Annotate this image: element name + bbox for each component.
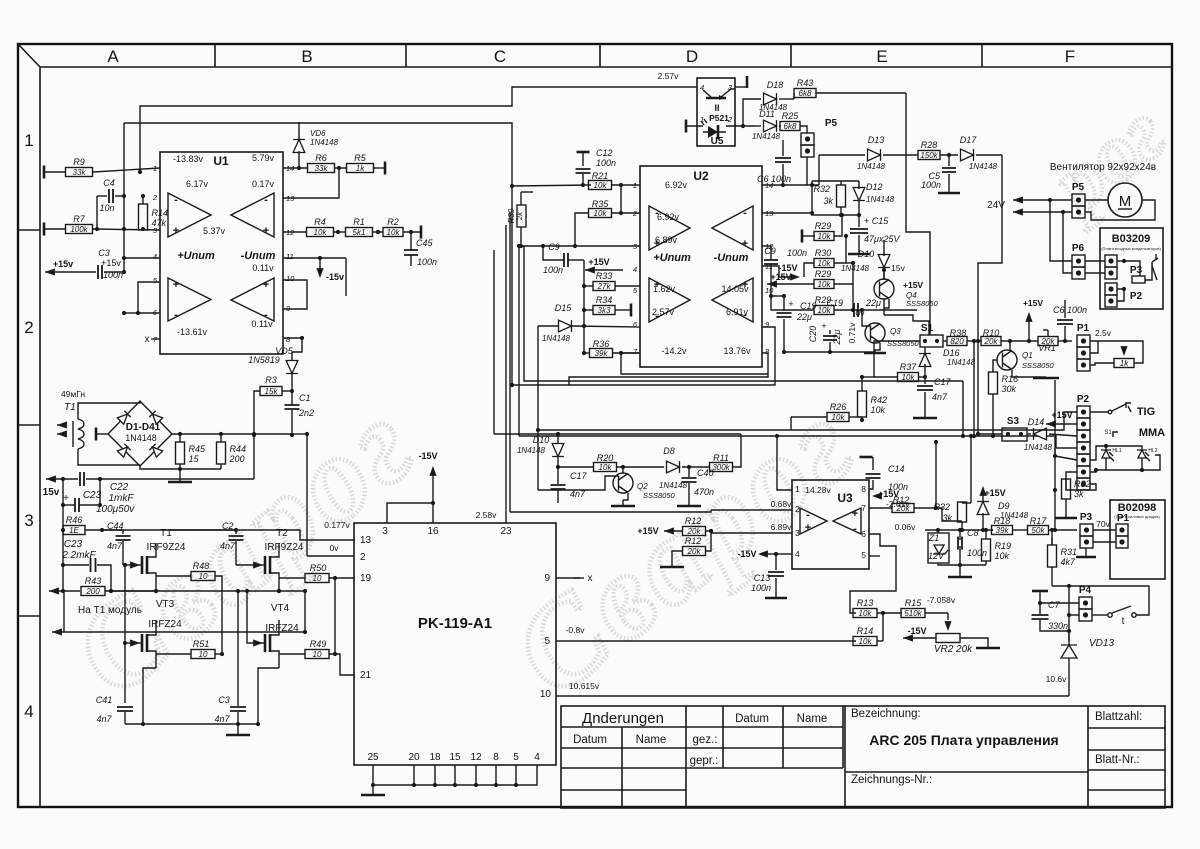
wire R6R5 to pin13: [283, 168, 339, 198]
op-amp U1.1: [168, 193, 211, 237]
wire D15 to U2 pin6: [571, 326, 640, 327]
svg-text:C14: C14: [888, 464, 905, 474]
svg-text:R14: R14: [857, 626, 874, 636]
svg-text:6.89v: 6.89v: [655, 235, 678, 245]
svg-text:1E: 1E: [69, 526, 79, 535]
capacitor C12: [577, 151, 590, 154]
svg-text:2k: 2k: [515, 211, 524, 221]
svg-text:4: 4: [153, 252, 157, 261]
bridge diode symbols: [117, 411, 130, 424]
svg-text:VD13: VD13: [1089, 638, 1114, 649]
svg-text:HL1: HL1: [1112, 448, 1121, 454]
svg-text:1N4148: 1N4148: [947, 358, 976, 367]
svg-text:10: 10: [540, 689, 552, 700]
PK pin2 wire: [307, 555, 354, 557]
svg-text:+: +: [742, 238, 748, 250]
svg-text:5: 5: [861, 550, 866, 560]
svg-text:-13.83v: -13.83v: [173, 154, 204, 164]
wire U2 pin8 loop: [569, 353, 768, 385]
ground under bridge: [179, 469, 181, 481]
svg-text:P6: P6: [1072, 243, 1085, 254]
svg-text:4n7: 4n7: [214, 714, 230, 724]
svg-text:0v: 0v: [330, 543, 340, 553]
svg-text:D1-D41: D1-D41: [126, 422, 161, 433]
resistor R1: [336, 230, 340, 234]
svg-text:+15v: +15v: [53, 259, 73, 269]
svg-text:4: 4: [795, 549, 800, 559]
resistor R42: [858, 391, 867, 417]
unit B02098: [1110, 500, 1165, 579]
svg-text:R32: R32: [933, 502, 950, 512]
svg-text:P5: P5: [1072, 182, 1085, 193]
svg-text:1N4148: 1N4148: [969, 162, 998, 171]
ground Z1 C8 R19: [938, 563, 986, 565]
svg-text:2.5v: 2.5v: [1095, 328, 1112, 338]
svg-text:-15V: -15V: [737, 549, 756, 559]
wire P5 down: [806, 157, 808, 185]
svg-text:-7.058v: -7.058v: [927, 595, 956, 605]
svg-text:2: 2: [795, 504, 800, 514]
wire U2 pin9 loop: [512, 327, 775, 385]
svg-text:4n7: 4n7: [96, 714, 112, 724]
grid column dividers: [215, 44, 982, 67]
svg-text:11: 11: [286, 252, 294, 261]
svg-text:R16: R16: [1002, 374, 1019, 384]
svg-text:-: -: [264, 194, 268, 206]
B03209 switch: [1152, 258, 1158, 280]
svg-text:+15V: +15V: [637, 526, 658, 536]
svg-text:10k: 10k: [859, 609, 873, 618]
svg-text:50k: 50k: [1032, 526, 1046, 535]
svg-text:1N4148: 1N4148: [542, 334, 571, 343]
svg-text:D18: D18: [767, 80, 784, 90]
svg-text:8: 8: [861, 484, 866, 494]
svg-text:C13: C13: [754, 573, 771, 583]
svg-text:+15V: +15V: [1023, 298, 1043, 308]
svg-text:C23: C23: [83, 490, 102, 501]
svg-text:C45: C45: [416, 238, 434, 248]
svg-text:R21: R21: [592, 171, 609, 181]
svg-text:100k: 100k: [70, 225, 88, 234]
svg-text:Datum: Datum: [735, 713, 769, 725]
svg-text:15: 15: [449, 752, 461, 763]
wire R45 R44 bottoms: [140, 465, 221, 469]
resistor R44: [217, 442, 226, 464]
svg-text:VD6: VD6: [310, 129, 326, 138]
svg-text:R43: R43: [85, 576, 102, 586]
svg-text:820: 820: [950, 337, 964, 346]
resistor R45: [176, 442, 185, 464]
wire vertical x510: [509, 212, 511, 512]
svg-text:4n7: 4n7: [220, 541, 236, 551]
wire P1 pin2: [1090, 341, 1098, 353]
svg-text:4: 4: [24, 702, 33, 721]
svg-text:39k: 39k: [595, 349, 609, 358]
svg-text:VT4: VT4: [271, 603, 290, 614]
svg-text:7: 7: [861, 503, 866, 513]
op-amp U1.2: [231, 193, 274, 237]
svg-text:33k: 33k: [315, 164, 329, 173]
svg-text:0.11v: 0.11v: [251, 319, 273, 329]
svg-text:10k: 10k: [995, 551, 1010, 561]
wire gate row: [102, 530, 123, 534]
svg-text:D14: D14: [1028, 417, 1045, 427]
wire C4 column: [96, 196, 98, 229]
svg-text:R3: R3: [265, 375, 277, 385]
resistor R31: [1048, 545, 1057, 567]
svg-text:20k: 20k: [984, 337, 999, 346]
wire vertical x307 to pin2: [306, 434, 308, 556]
svg-text:-13.61v: -13.61v: [177, 327, 208, 337]
power +15V arrow U2 left: [585, 266, 595, 273]
svg-text:R28: R28: [921, 140, 938, 150]
svg-text:U3: U3: [837, 491, 853, 505]
wire R31 to P4 jog: [1052, 586, 1069, 631]
ground under Q3: [875, 343, 880, 352]
wire to U1 pin4: [124, 257, 160, 259]
svg-text:Datum: Datum: [573, 734, 607, 746]
T2 wires: [278, 543, 280, 551]
PK pin9 wire x: [556, 577, 580, 579]
LED HL1: [1101, 450, 1111, 458]
svg-text:+15V: +15V: [770, 272, 791, 282]
svg-text:300k: 300k: [712, 463, 730, 472]
wire pin10 pin9 loop: [283, 280, 307, 309]
svg-text:R42: R42: [871, 395, 888, 405]
svg-text:3k3: 3k3: [598, 306, 611, 315]
svg-text:0.177v: 0.177v: [324, 520, 350, 530]
svg-text:20k: 20k: [896, 504, 911, 513]
svg-text:VR2 20k: VR2 20k: [934, 644, 973, 655]
svg-text:Q3: Q3: [890, 327, 901, 336]
svg-text:10k: 10k: [818, 259, 832, 268]
wire P4 pin2 row: [1069, 614, 1079, 616]
U5 phototransistor: [703, 89, 735, 97]
svg-text:C3: C3: [98, 248, 110, 258]
svg-text:10k: 10k: [818, 232, 832, 241]
svg-text:25: 25: [367, 752, 379, 763]
svg-text:100μ50v: 100μ50v: [96, 504, 135, 515]
svg-text:6.89v: 6.89v: [771, 522, 793, 532]
svg-text:x: x: [145, 334, 150, 345]
svg-text:-: -: [743, 207, 747, 219]
svg-text:20: 20: [408, 752, 420, 763]
svg-text:22μ: 22μ: [865, 298, 881, 308]
svg-text:15v: 15v: [891, 263, 905, 273]
svg-text:A: A: [107, 47, 119, 66]
svg-text:Q2: Q2: [637, 482, 648, 491]
wire vertical x519: [518, 246, 520, 436]
svg-text:5: 5: [544, 636, 550, 647]
svg-text:24V: 24V: [987, 200, 1005, 211]
wire Q3 base: [862, 310, 870, 326]
svg-text:6: 6: [861, 529, 866, 539]
motor wires: [1085, 199, 1108, 201]
T1 drain-source wires: [155, 543, 157, 551]
wire parallel vertical: [973, 341, 975, 436]
svg-text:C7: C7: [1048, 600, 1060, 610]
B03209 internal wires: [1117, 260, 1124, 262]
capacitor C14: [860, 456, 873, 459]
wire R36 output down: [619, 351, 623, 355]
U5 pin3 terminal: [735, 86, 747, 88]
wire D17 down: [978, 155, 1002, 341]
svg-text:10k: 10k: [599, 463, 613, 472]
svg-text:6k8: 6k8: [799, 89, 812, 98]
arrow to T1 module: [52, 628, 62, 635]
svg-text:10: 10: [313, 650, 322, 659]
svg-text:Blatt-Nr.:: Blatt-Nr.:: [1095, 754, 1140, 766]
svg-text:22μ: 22μ: [796, 312, 812, 322]
svg-text:+15v: +15v: [101, 258, 121, 268]
svg-text:4: 4: [534, 752, 540, 763]
resistor R5: [337, 166, 341, 170]
capacitor C22: [46, 475, 56, 482]
svg-text:9: 9: [544, 573, 550, 584]
svg-text:0.06v: 0.06v: [895, 522, 917, 532]
svg-text:6.17v: 6.17v: [186, 179, 209, 189]
svg-text:10.6v: 10.6v: [1046, 674, 1068, 684]
wires to P6: [1050, 200, 1072, 261]
wire R46 row to PK pin13: [102, 530, 355, 540]
transistor Q2: [613, 473, 633, 493]
svg-text:P3: P3: [1080, 512, 1093, 523]
svg-text:C6 100n: C6 100n: [757, 174, 791, 184]
power +15v arrow: [45, 268, 55, 275]
wire pin8 to VD5: [283, 337, 302, 339]
svg-text:C44: C44: [107, 521, 124, 531]
svg-text:R30: R30: [815, 248, 832, 258]
resistor R9: [43, 166, 46, 179]
ground under Q2: [622, 500, 624, 505]
svg-text:10.615v: 10.615v: [569, 681, 600, 691]
wire vertical x971: [970, 436, 972, 503]
svg-text:15v: 15v: [43, 487, 60, 498]
resistor R2: [376, 230, 380, 234]
svg-text:R7: R7: [73, 214, 85, 224]
svg-text:-15V: -15V: [907, 626, 926, 636]
svg-text:(Плата входных конденсаторов): (Плата входных конденсаторов): [1101, 246, 1161, 251]
svg-text:C9: C9: [548, 242, 560, 252]
svg-text:10k: 10k: [594, 181, 608, 190]
LED HL2: [1137, 450, 1147, 458]
svg-text:VR1: VR1: [1038, 343, 1056, 353]
wire Q3 emitter row: [783, 330, 785, 335]
svg-text:B03209: B03209: [1112, 233, 1151, 245]
svg-text:10k: 10k: [871, 405, 886, 415]
svg-text:13: 13: [360, 535, 372, 546]
op-amp U2.3: [649, 278, 690, 322]
svg-text:33k: 33k: [73, 168, 87, 177]
svg-text:M: M: [1119, 193, 1132, 210]
unit B03209: [1100, 228, 1163, 309]
svg-text:47μx25V: 47μx25V: [864, 234, 900, 244]
svg-text:R19: R19: [995, 541, 1012, 551]
TIG switch: [1090, 411, 1108, 413]
svg-text:+15V: +15V: [588, 257, 609, 267]
svg-text:U1: U1: [213, 154, 229, 168]
terminal at bridge left: [95, 428, 98, 441]
svg-text:1N4148: 1N4148: [125, 433, 157, 443]
wire vertical x963: [962, 381, 964, 436]
svg-text:C17: C17: [570, 471, 588, 481]
svg-text:1N4148: 1N4148: [517, 446, 546, 455]
svg-text:5.79v: 5.79v: [252, 153, 275, 163]
resistor R6: [283, 167, 307, 169]
svg-text:gepr.:: gepr.:: [690, 755, 719, 767]
wire railE S3 row: [977, 341, 979, 434]
svg-text:1N4148: 1N4148: [310, 138, 339, 147]
PK pin3 pin16 -15V arrow: [387, 503, 433, 523]
svg-text:MMA: MMA: [1139, 427, 1165, 439]
svg-text:2: 2: [360, 552, 366, 563]
svg-text:S1: S1: [1104, 430, 1112, 436]
svg-text:C41: C41: [96, 695, 113, 705]
svg-text:510k: 510k: [904, 609, 922, 618]
svg-text:6.92v: 6.92v: [657, 212, 680, 222]
svg-text:U5: U5: [711, 136, 724, 147]
resistor R4: [283, 231, 307, 233]
svg-text:1N4148: 1N4148: [752, 132, 781, 141]
ground under C3: [237, 724, 239, 734]
svg-text:B: B: [301, 47, 312, 66]
svg-text:R35: R35: [592, 199, 610, 209]
svg-text:R48: R48: [193, 561, 210, 571]
wire U3 out pin6: [869, 555, 880, 557]
ground P3: [1085, 548, 1087, 556]
svg-text:-14.2v: -14.2v: [661, 346, 687, 356]
svg-text:P2: P2: [1077, 394, 1090, 405]
wire Q1 emitter: [1012, 370, 1040, 377]
svg-text:SSS8050: SSS8050: [906, 299, 939, 308]
svg-text:TIG: TIG: [1137, 406, 1155, 418]
svg-text:3k: 3k: [942, 513, 952, 523]
svg-text:C20: C20: [808, 326, 818, 343]
svg-text:+Unum: +Unum: [653, 252, 691, 264]
svg-text:R29: R29: [815, 221, 832, 231]
wire vertical x494 top: [493, 250, 495, 345]
resistor R32-3k right: [1062, 479, 1071, 499]
op-amp U2.2: [712, 206, 753, 250]
svg-text:12V: 12V: [928, 551, 945, 561]
svg-text:D15: D15: [555, 303, 573, 313]
VR2 right to ground: [960, 638, 988, 647]
svg-text:IRF9Z24: IRF9Z24: [147, 542, 186, 553]
svg-text:D9: D9: [998, 501, 1010, 511]
svg-text:100n: 100n: [787, 248, 807, 258]
svg-text:100n: 100n: [921, 180, 941, 190]
svg-text:0.68v: 0.68v: [771, 499, 793, 509]
svg-text:C23: C23: [64, 539, 83, 550]
U1 pin11 wire with -15v arrow: [283, 257, 346, 259]
resistor R32-3k left-mid: [958, 502, 967, 522]
svg-text:10: 10: [286, 274, 295, 283]
svg-text:+Unum: +Unum: [177, 250, 215, 262]
svg-text:10: 10: [313, 574, 322, 583]
svg-text:R32: R32: [813, 184, 830, 194]
svg-text:150k: 150k: [920, 151, 938, 160]
svg-text:VT3: VT3: [156, 599, 175, 610]
svg-text:14.28v: 14.28v: [805, 485, 831, 495]
wire R12a to R32-3k node: [936, 508, 962, 521]
svg-text:D10: D10: [858, 249, 875, 259]
svg-text:27k: 27k: [597, 282, 612, 291]
svg-text:C: C: [494, 47, 506, 66]
wire rail top: [140, 87, 697, 172]
capacitor C45: [409, 230, 413, 234]
svg-text:22μ: 22μ: [832, 329, 842, 345]
svg-text:8: 8: [493, 752, 499, 763]
svg-text:Blattzahl:: Blattzahl:: [1095, 711, 1142, 723]
svg-text:На Т1 модуль: На Т1 модуль: [78, 605, 142, 616]
svg-text:T2: T2: [276, 528, 288, 539]
svg-text:S3: S3: [1007, 416, 1020, 427]
power +15V arrow at P2: [1046, 420, 1056, 427]
svg-text:0.17v: 0.17v: [252, 179, 275, 189]
svg-text:3: 3: [24, 511, 33, 530]
wire U5 pin2: [726, 125, 755, 127]
svg-text:12: 12: [470, 752, 482, 763]
watermark: [49, 86, 1182, 721]
svg-text:6.91v: 6.91v: [726, 307, 749, 317]
svg-text:C6 100n: C6 100n: [1053, 305, 1087, 315]
wire vertical x494: [493, 345, 495, 434]
PK pin10 wire: [556, 695, 1069, 697]
svg-text:4n7: 4n7: [932, 392, 948, 402]
svg-text:U2: U2: [693, 169, 709, 183]
wire R29c left: [771, 296, 814, 310]
svg-text:C19: C19: [826, 298, 843, 308]
wire R43 to S1 route: [906, 93, 930, 335]
transistor Q1: [997, 350, 1017, 370]
svg-text:D11: D11: [759, 109, 775, 119]
svg-text:1mkF: 1mkF: [109, 493, 135, 504]
U3 pin4 wire with -15V: [776, 553, 792, 555]
svg-text:14.05v: 14.05v: [721, 284, 749, 294]
svg-text:R12: R12: [685, 536, 702, 546]
svg-text:Bezeichnung:: Bezeichnung:: [851, 708, 921, 720]
svg-text:3: 3: [795, 528, 800, 538]
svg-text:R51: R51: [193, 639, 210, 649]
wire vertical x974b: [972, 434, 976, 438]
svg-text:C3: C3: [218, 695, 230, 705]
svg-text:-: -: [174, 194, 178, 206]
resistor R7: [43, 223, 46, 236]
svg-text:70v: 70v: [1096, 519, 1110, 529]
svg-text:R33: R33: [596, 271, 613, 281]
svg-text:D10: D10: [533, 435, 550, 445]
svg-text:1N4148: 1N4148: [857, 162, 886, 171]
node wire Z1 C8 R19: [925, 529, 993, 531]
title block: [561, 706, 1165, 808]
svg-text:-Unum: -Unum: [241, 250, 276, 262]
wire U3 pin2 long: [510, 510, 711, 512]
svg-text:R44: R44: [230, 444, 247, 454]
op-amp U1.3: [168, 278, 211, 321]
svg-text:C40: C40: [697, 468, 714, 478]
transistor Q4: [874, 279, 894, 299]
svg-text:S1: S1: [921, 323, 934, 334]
svg-text:2.57v: 2.57v: [652, 307, 675, 317]
svg-text:-0.8v: -0.8v: [566, 625, 586, 635]
power +15V and D9: [979, 486, 986, 496]
motor M: [1108, 183, 1142, 217]
svg-text:P1: P1: [1077, 323, 1090, 334]
svg-text:IRFZ24: IRFZ24: [265, 623, 299, 634]
wire P1 pin1 to 1k: [1090, 341, 1143, 363]
B03209 connector stack2: [1105, 283, 1117, 295]
resistor R14: [139, 204, 148, 230]
